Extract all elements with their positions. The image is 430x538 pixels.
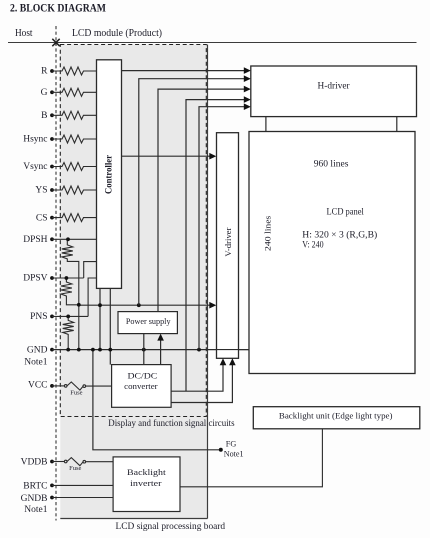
svg-text:Host: Host bbox=[15, 28, 33, 39]
svg-text:FG: FG bbox=[226, 439, 237, 449]
svg-text:B: B bbox=[41, 111, 47, 121]
svg-text:H: 320 × 3 (R,G,B): H: 320 × 3 (R,G,B) bbox=[302, 229, 377, 239]
svg-text:Note1: Note1 bbox=[224, 449, 244, 459]
svg-text:Display and function signal ci: Display and function signal circuits bbox=[108, 418, 235, 428]
svg-text:Fuse: Fuse bbox=[69, 465, 81, 472]
svg-text:V: 240: V: 240 bbox=[302, 240, 324, 250]
svg-text:VDDB: VDDB bbox=[21, 457, 48, 467]
svg-text:Backlight unit (Edge light typ: Backlight unit (Edge light type) bbox=[279, 411, 393, 421]
svg-text:LCD panel: LCD panel bbox=[327, 207, 365, 217]
svg-text:Vsync: Vsync bbox=[23, 162, 47, 172]
svg-text:960 lines: 960 lines bbox=[314, 159, 349, 169]
svg-text:BRTC: BRTC bbox=[23, 482, 47, 492]
svg-text:converter: converter bbox=[124, 381, 158, 391]
svg-text:LCD module (Product): LCD module (Product) bbox=[72, 28, 162, 39]
svg-text:Backlight: Backlight bbox=[127, 467, 166, 477]
svg-text:H-driver: H-driver bbox=[318, 82, 351, 92]
svg-text:DC/DC: DC/DC bbox=[128, 370, 158, 380]
svg-text:CS: CS bbox=[36, 213, 48, 223]
svg-text:R: R bbox=[41, 67, 48, 77]
svg-text:PNS: PNS bbox=[30, 312, 47, 322]
svg-text:GNDB: GNDB bbox=[21, 494, 48, 504]
svg-text:Fuse: Fuse bbox=[70, 390, 82, 397]
svg-text:VCC: VCC bbox=[28, 380, 48, 390]
svg-text:Hsync: Hsync bbox=[23, 135, 47, 145]
svg-text:Note1: Note1 bbox=[24, 358, 47, 368]
svg-text:2. BLOCK DIAGRAM: 2. BLOCK DIAGRAM bbox=[10, 1, 106, 15]
svg-text:inverter: inverter bbox=[130, 478, 162, 488]
svg-text:GND: GND bbox=[27, 345, 48, 355]
svg-text:V-driver: V-driver bbox=[224, 227, 233, 256]
svg-text:G: G bbox=[41, 88, 48, 98]
svg-text:240 lines: 240 lines bbox=[262, 216, 272, 251]
svg-text:Note1: Note1 bbox=[24, 505, 47, 515]
svg-text:DPSH: DPSH bbox=[23, 235, 47, 245]
svg-text:LCD signal processing board: LCD signal processing board bbox=[116, 521, 226, 531]
svg-text:YS: YS bbox=[35, 186, 47, 196]
svg-text:Controller: Controller bbox=[104, 154, 114, 194]
svg-text:DPSV: DPSV bbox=[23, 274, 47, 284]
svg-text:Power supply: Power supply bbox=[126, 317, 172, 326]
